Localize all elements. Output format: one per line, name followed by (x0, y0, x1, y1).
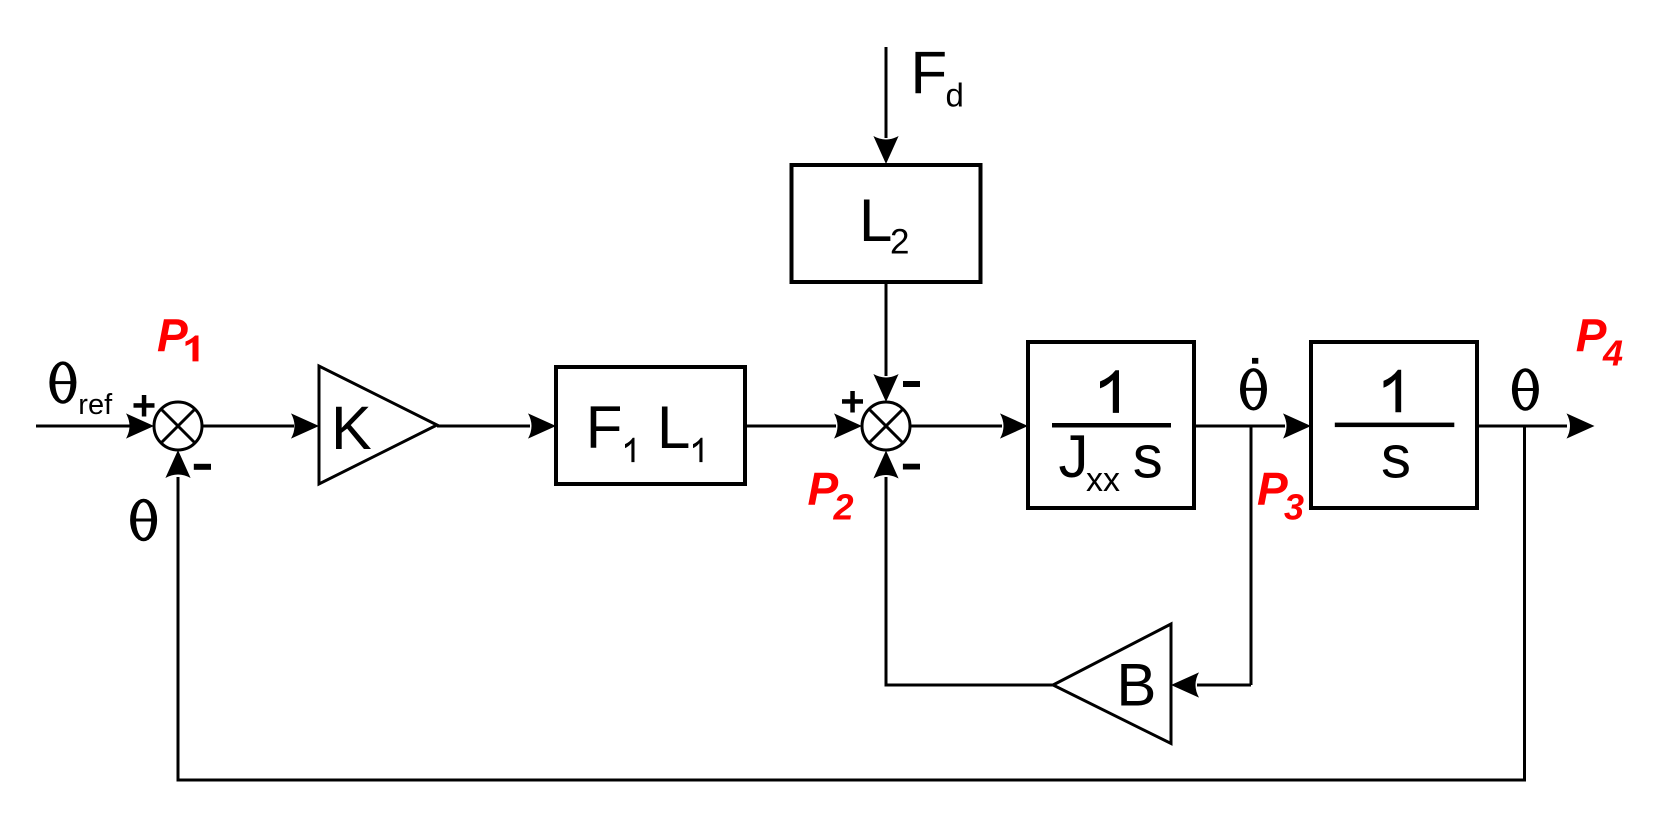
summing junction 1 (P1) circle (154, 402, 202, 450)
arrowhead into junction 1 bottom (165, 450, 190, 478)
arrowhead into Jxx block (1000, 413, 1028, 438)
svg-text:d: d (946, 77, 964, 114)
wire: junction 2 to Jxx block (910, 425, 1002, 428)
node theta feedback label (130, 499, 157, 541)
minus sign top-right of junction 2 (903, 381, 920, 387)
block F1 L1 (556, 367, 745, 484)
plus sign at junction 1 (134, 403, 155, 408)
block 1/(Jxx s) (1028, 342, 1194, 508)
arrowhead into F1L1 (528, 413, 556, 438)
summing junction 2 X cross (869, 409, 903, 443)
summing junction 1 X cross (161, 409, 195, 443)
svg-text:B: B (1116, 652, 1156, 719)
summing junction 2 (P2) circle (862, 402, 910, 450)
wire: K to F1L1 (437, 425, 530, 428)
svg-text:K: K (331, 394, 372, 462)
arrowhead into L2 (873, 136, 898, 164)
node theta-dot label (1240, 368, 1267, 410)
svg-text:4: 4 (1602, 333, 1623, 374)
arrowhead into B (1171, 672, 1199, 697)
arrowhead into 1/s block (1283, 413, 1311, 438)
svg-text:FL: FL (586, 394, 691, 461)
svg-text:2: 2 (833, 487, 854, 528)
wire: F_d input vertical (885, 47, 888, 138)
gain K triangle (319, 366, 437, 484)
svg-text:ref: ref (78, 389, 113, 421)
wire: Jxx block to 1/s block (1194, 425, 1285, 428)
wire: P3 branch left into B (1197, 684, 1251, 687)
arrowhead into summing junction P1 (126, 413, 154, 438)
wire: junction1 to K (202, 425, 294, 428)
arrowhead into junction 2 (834, 413, 862, 438)
wire: B apex left then up to junction 2 (886, 477, 1053, 685)
block L2 (792, 165, 981, 282)
wire: P3 branch down (1250, 426, 1253, 685)
svg-text:Jxxs: Jxxs (1059, 423, 1163, 499)
arrowhead into junction 2 bottom (873, 451, 898, 479)
svg-text:2: 2 (890, 223, 909, 262)
svg-text:3: 3 (1284, 487, 1304, 528)
plus sign at junction 2 (842, 399, 863, 404)
node theta_ref label (49, 361, 76, 403)
wire: outer feedback loop (178, 426, 1525, 780)
minus sign bottom-right of junction 2 (903, 464, 920, 470)
node theta output label (1512, 368, 1539, 410)
gain B triangle (1053, 624, 1171, 744)
wire: 1/s to output (1477, 425, 1567, 428)
block 1/s (1311, 342, 1477, 508)
wire: F1L1 to junction 2 (745, 425, 836, 428)
minus sign below junction 1 (194, 464, 211, 470)
arrowhead from L2 into junction 2 (873, 374, 898, 402)
arrowhead output (1567, 413, 1595, 438)
svg-text:F: F (911, 40, 948, 107)
arrowhead into K (291, 413, 319, 438)
svg-text:L: L (859, 187, 892, 254)
wire: input theta_ref line (36, 425, 130, 428)
svg-text:P: P (157, 310, 188, 362)
wire: L2 to junction 2 (885, 282, 888, 376)
svg-text:s: s (1381, 424, 1411, 491)
